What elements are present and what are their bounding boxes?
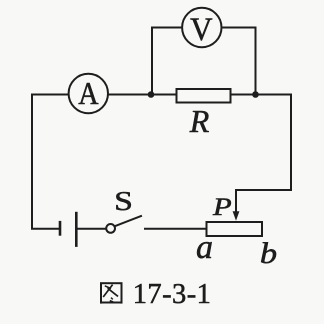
potentiometer body <box>207 222 263 236</box>
wire: slider arrow stem <box>235 190 237 212</box>
svg-text:a: a <box>196 229 213 266</box>
svg-text:S: S <box>114 186 133 216</box>
svg-text:R: R <box>189 103 210 139</box>
wire: right vertical down <box>236 95 291 191</box>
caption character 图 <box>101 283 122 303</box>
node: junction right of R <box>252 91 259 98</box>
wire: ammeter to resistor <box>108 94 176 96</box>
wire: left to ammeter <box>32 94 69 96</box>
svg-text:P: P <box>212 193 232 221</box>
wire: switch to potentiometer <box>145 228 206 230</box>
wire: resistor to right corner <box>232 94 292 96</box>
node: junction left of R <box>148 91 155 98</box>
switch S pivot circle <box>106 224 115 233</box>
voltmeter V <box>182 8 221 47</box>
switch S lever <box>115 216 141 226</box>
wire: battery to switch <box>78 228 107 230</box>
wire: voltmeter right branch <box>222 28 256 95</box>
wire: voltmeter left branch <box>152 28 183 95</box>
svg-text:17-3-1: 17-3-1 <box>133 279 212 310</box>
slider arrowhead P <box>233 211 240 221</box>
battery negative plate (short) <box>59 221 62 236</box>
ammeter A <box>69 74 108 113</box>
svg-text:A: A <box>78 75 99 111</box>
resistor R <box>177 89 231 103</box>
svg-text:b: b <box>260 236 277 269</box>
battery positive plate (long) <box>75 212 78 247</box>
svg-text:V: V <box>190 10 212 47</box>
wire: left side vertical (ammeter to battery) <box>32 95 59 229</box>
